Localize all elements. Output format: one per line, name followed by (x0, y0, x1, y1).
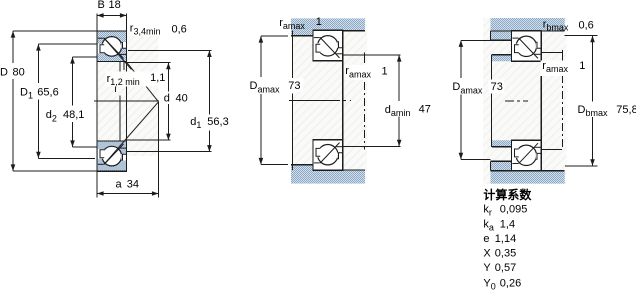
bearing lower section (mirrored) (97, 141, 127, 172)
svg-text:65,6: 65,6 (37, 86, 58, 98)
svg-text:0,095: 0,095 (500, 204, 528, 216)
seat line top (491, 30, 565, 32)
dimension D1 (38, 43, 97, 45)
svg-text:D: D (0, 66, 8, 78)
r1,2min leader (123, 62, 125, 70)
dimension damin (398, 55, 400, 101)
svg-text:0,57: 0,57 (495, 262, 516, 274)
shaft shoulder bottom (492, 140, 511, 147)
bearing upper section (white) (512, 31, 542, 62)
svg-text:d: d (164, 93, 170, 105)
housing seat band bottom (491, 171, 565, 184)
dimension Damax (461, 39, 491, 41)
dimension D (12, 31, 14, 63)
bearing upper section (cross-section, blue) (97, 31, 127, 62)
shoulder left edge lines (490, 31, 492, 40)
svg-text:47: 47 (419, 104, 431, 116)
seat line bottom (313, 169, 365, 171)
ra extension line (dashed) (364, 53, 366, 64)
ra lines right (541, 52, 563, 54)
svg-text:1,14: 1,14 (495, 233, 516, 245)
bearing right face line (126, 14, 128, 172)
seat line bottom (491, 170, 565, 172)
hatch zone figure 1 (97, 31, 159, 156)
bearing bottom face / D extension line (13, 170, 127, 172)
bearing lower section (white, mirrored) (512, 140, 542, 171)
contact angle line lower (104, 102, 159, 165)
svg-text:a: a (116, 179, 123, 191)
bearing upper section (white) (313, 30, 343, 61)
shaft shoulder line top (342, 54, 400, 56)
dimension d2 (73, 56, 98, 58)
housing shoulder top (491, 31, 512, 40)
inner ring land extension line (119, 62, 121, 72)
svg-text:0,6: 0,6 (172, 23, 187, 35)
housing seat band top (291, 18, 365, 30)
label r3,4min 0,6 (127, 22, 166, 36)
housing shoulder top edge (bottom) (491, 160, 512, 162)
svg-text:X: X (483, 247, 491, 259)
dimension d1 (128, 49, 212, 51)
bearing lower section (white, mirrored) (313, 140, 343, 171)
svg-text:18: 18 (109, 0, 121, 11)
shaft shoulder bottom edge (bottom) (492, 146, 511, 148)
contact angle line upper (104, 38, 132, 70)
axis centerline (289, 99, 351, 101)
svg-text:34: 34 (127, 179, 139, 191)
svg-text:56,3: 56,3 (207, 116, 228, 128)
shoulder face line (292, 31, 294, 78)
svg-text:75,8: 75,8 (616, 104, 636, 116)
svg-text:1,4: 1,4 (500, 218, 515, 230)
housing shoulder bottom edge (491, 39, 512, 41)
housing shoulder bottom (491, 161, 512, 170)
svg-text:1: 1 (382, 66, 388, 78)
hatch zone figure 2 (292, 18, 367, 184)
bearing top face / D extension line (13, 30, 127, 32)
label r1,2 min 1,1 (106, 72, 166, 87)
svg-text:1,1: 1,1 (150, 72, 165, 84)
shoulder bottom line top (291, 35, 313, 37)
dimension a (97, 193, 159, 195)
svg-text:80: 80 (13, 66, 25, 78)
apex / a extension line (158, 102, 160, 198)
svg-text:73: 73 (491, 81, 503, 93)
svg-text:1: 1 (579, 60, 585, 72)
housing seat band top (491, 18, 565, 31)
label ramax 1 (right) (345, 65, 375, 80)
svg-text:Y: Y (483, 262, 491, 274)
svg-text:73: 73 (288, 80, 300, 92)
dimension B (97, 14, 127, 16)
svg-text:计算系数: 计算系数 (483, 187, 532, 202)
housing shoulder top (291, 31, 313, 36)
shaft shoulder top edge (492, 54, 511, 56)
label ramax 1 (541, 61, 572, 77)
svg-text:e: e (483, 233, 489, 245)
housing seat band bottom (291, 170, 365, 184)
svg-text:40: 40 (176, 93, 188, 105)
bearing right face line (342, 30, 344, 171)
dimension d (127, 62, 171, 64)
contact angle line to apex (127, 62, 159, 102)
svg-text:B: B (98, 0, 105, 11)
dimension Damax (261, 35, 288, 37)
axis centerline mark (505, 100, 528, 102)
hatch zone figure 3 (483, 18, 567, 184)
svg-text:0,35: 0,35 (495, 247, 516, 259)
seat line top (313, 30, 365, 32)
shaft face line (490, 55, 492, 81)
bearing left face line (96, 14, 98, 198)
svg-text:48,1: 48,1 (63, 109, 84, 121)
bearing right face line (540, 31, 542, 171)
shoulder top line bottom (291, 164, 313, 166)
svg-text:0,26: 0,26 (500, 278, 521, 290)
shaft shoulder line bottom (342, 145, 400, 147)
dimension Dbmax (565, 35, 598, 37)
bearing axis line (94, 100, 159, 102)
svg-text:1: 1 (316, 16, 322, 28)
svg-text:0,6: 0,6 (579, 19, 594, 31)
housing shoulder bottom (291, 165, 313, 170)
shaft shoulder top (492, 55, 511, 62)
